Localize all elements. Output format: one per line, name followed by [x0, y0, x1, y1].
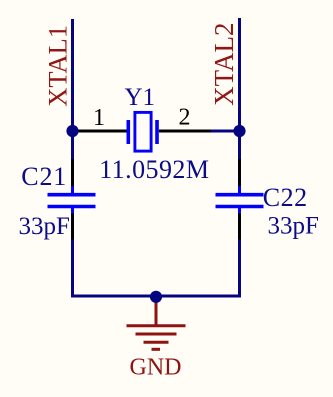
capacitor C21 body	[48, 186, 96, 214]
svg-text:2: 2	[179, 105, 191, 131]
svg-text:11.0592M: 11.0592M	[99, 155, 209, 184]
wire: XTAL1 vertical (left)	[71, 19, 74, 159]
svg-text:33pF: 33pF	[19, 213, 70, 240]
wire: XTAL2 vertical (right)	[238, 18, 241, 159]
capacitor C22 pins (black)	[238, 159, 241, 187]
ground symbol	[127, 296, 186, 349]
junction node XTAL1/pin1	[66, 125, 78, 137]
crystal Y1 pin 1 (black)	[73, 130, 127, 133]
svg-text:Y1: Y1	[125, 84, 156, 111]
svg-text:1: 1	[93, 105, 105, 131]
junction node GND	[150, 291, 162, 303]
capacitor C21 pins (black)	[71, 159, 74, 187]
junction node XTAL2/pin2	[233, 125, 245, 137]
svg-text:GND: GND	[130, 355, 182, 381]
wire: left vertical below C21	[71, 239, 74, 298]
svg-text:33pF: 33pF	[268, 213, 319, 240]
wire: horizontal from crystal pin 2 to right vertical	[211, 130, 242, 133]
crystal Y1 pin 2 (black)	[159, 130, 211, 133]
svg-text:XTAL2: XTAL2	[209, 22, 239, 105]
svg-text:C21: C21	[21, 162, 67, 191]
svg-text:C22: C22	[263, 183, 308, 212]
wire: bottom horizontal	[71, 295, 241, 298]
wire: right vertical below C22	[238, 239, 241, 298]
svg-text:XTAL1: XTAL1	[43, 25, 73, 107]
crystal Y1 body	[128, 112, 157, 151]
capacitor C22 body	[216, 186, 264, 214]
